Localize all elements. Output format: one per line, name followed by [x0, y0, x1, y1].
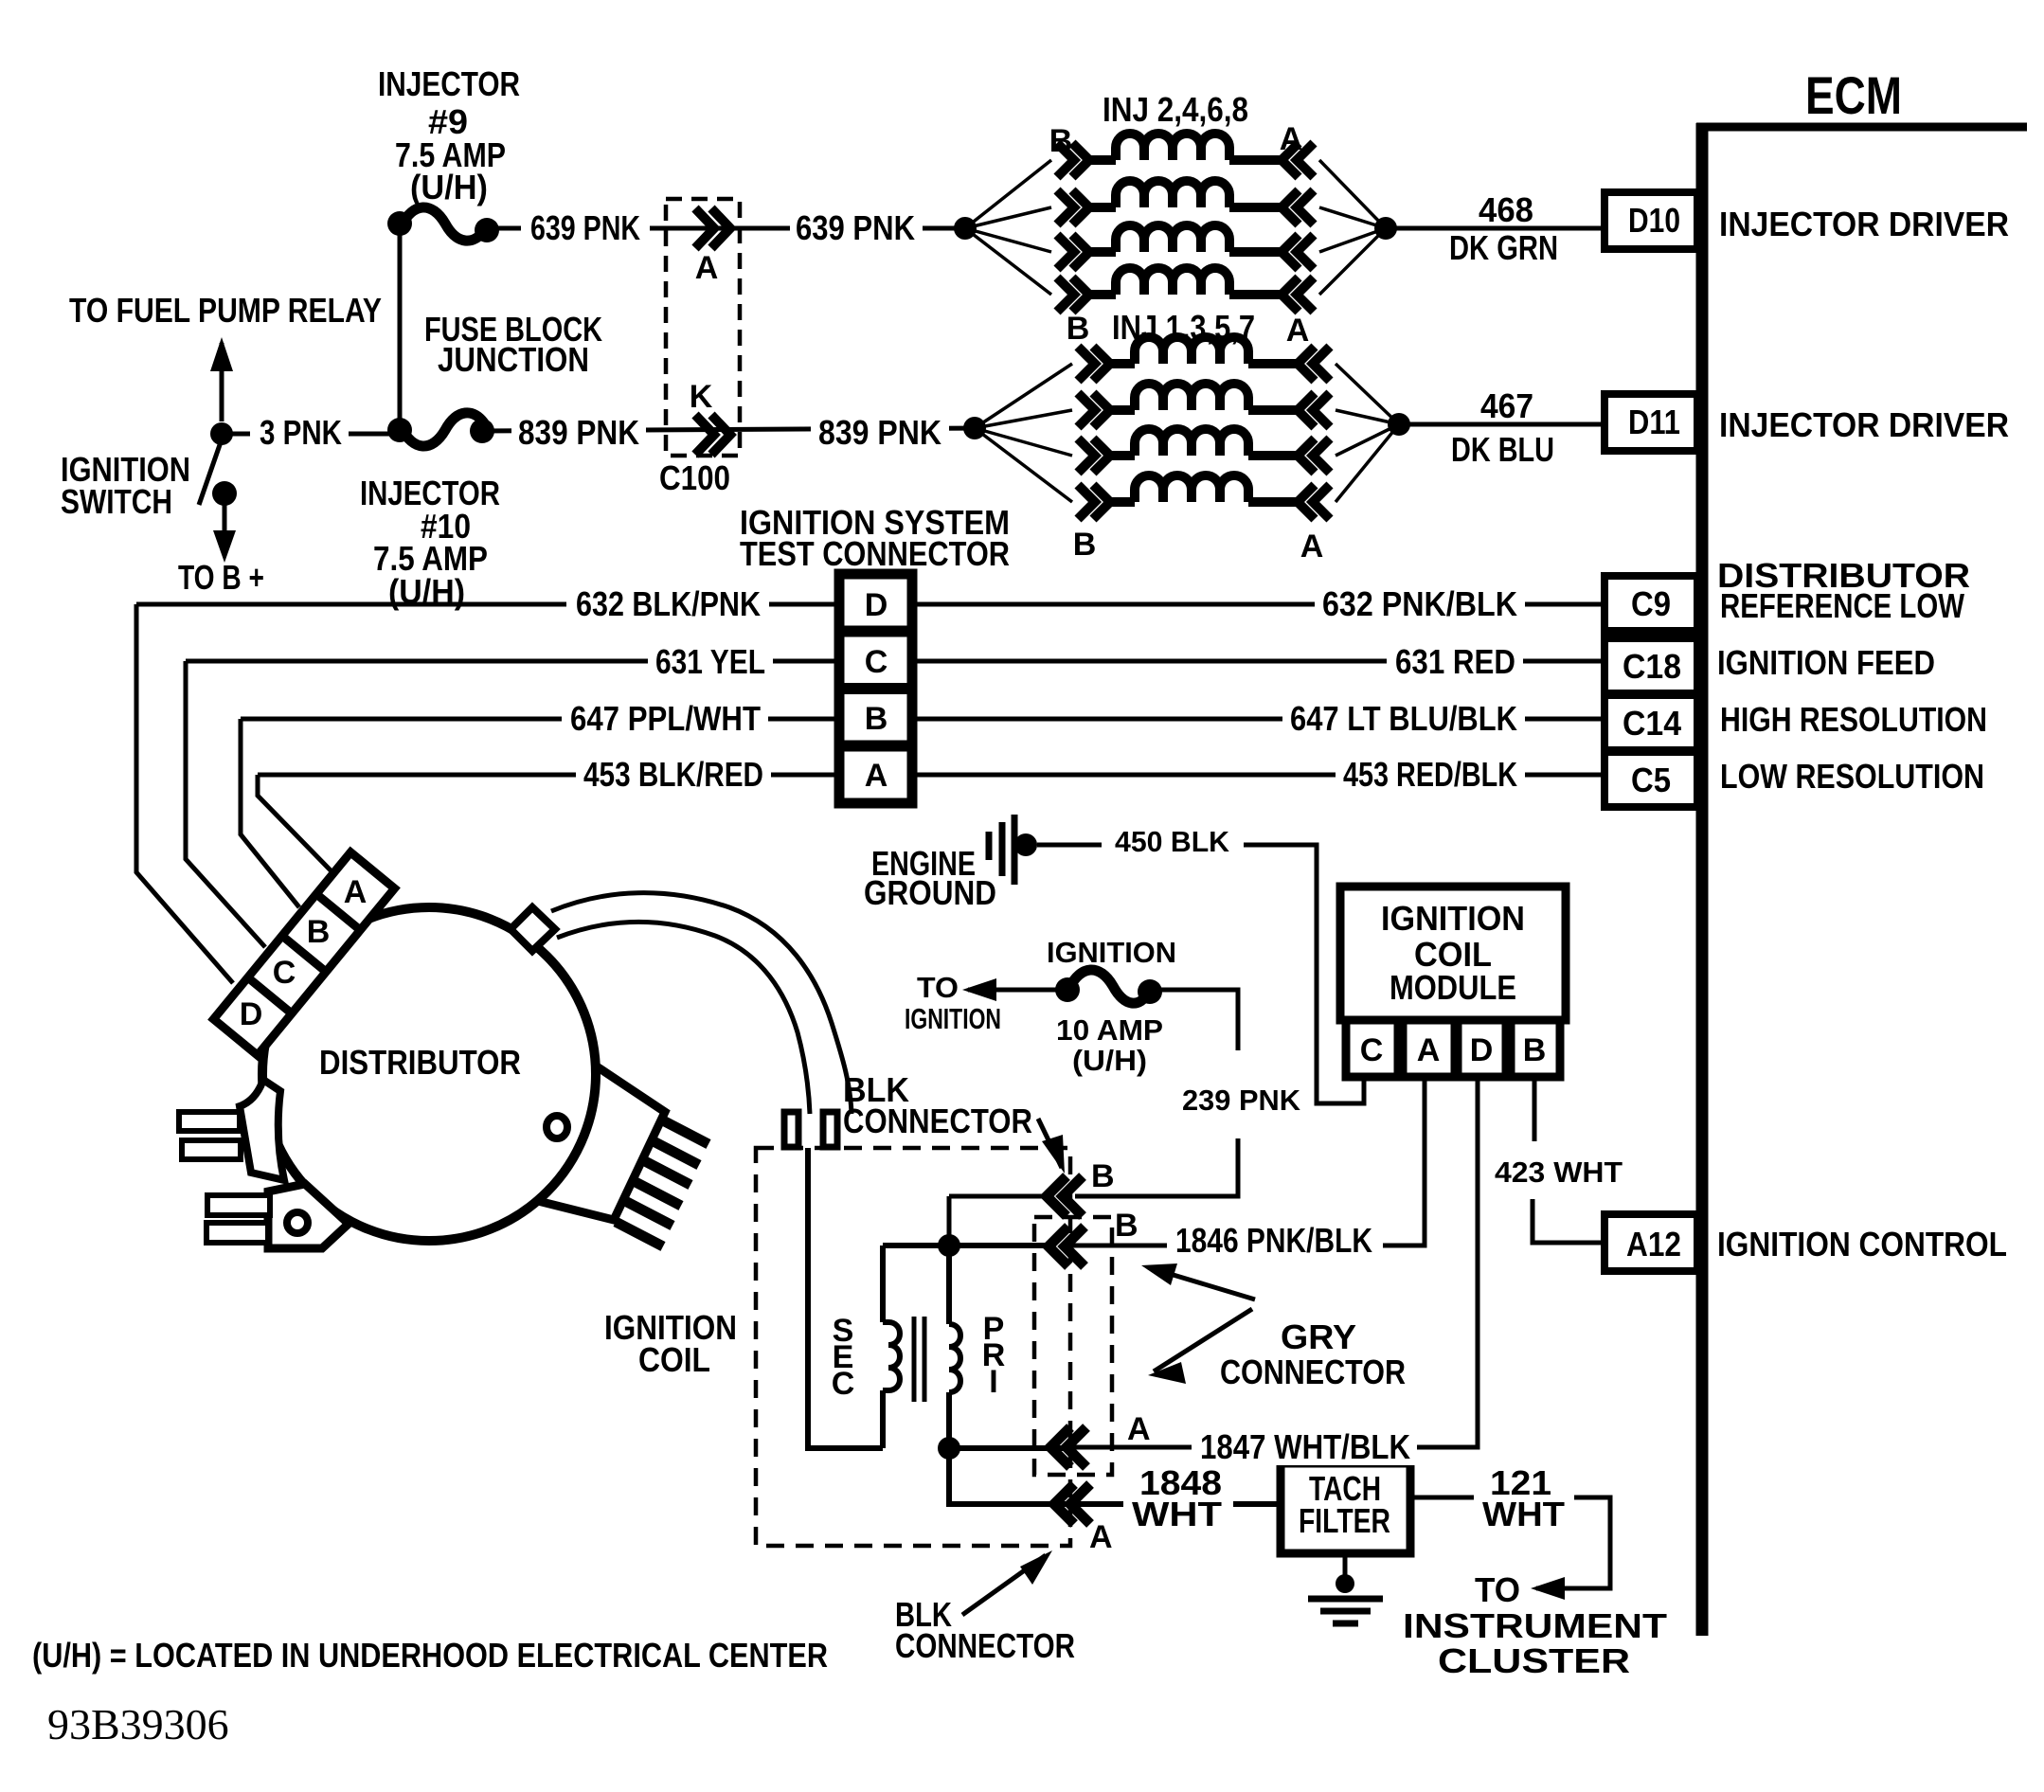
svg-text:10 AMP: 10 AMP	[1056, 1013, 1163, 1047]
svg-text:93B39306: 93B39306	[47, 1700, 229, 1748]
svg-text:TO FUEL PUMP RELAY: TO FUEL PUMP RELAY	[69, 291, 382, 330]
svg-text:TO B +: TO B +	[178, 558, 264, 597]
svg-text:C18: C18	[1623, 647, 1681, 686]
svg-text:I: I	[989, 1364, 997, 1400]
svg-text:DK GRN: DK GRN	[1449, 228, 1558, 267]
svg-text:C9: C9	[1631, 584, 1671, 623]
svg-text:CONNECTOR: CONNECTOR	[1220, 1353, 1406, 1391]
svg-text:B: B	[307, 914, 331, 950]
svg-text:632 PNK/BLK: 632 PNK/BLK	[1322, 584, 1517, 623]
svg-text:A: A	[1286, 313, 1310, 349]
svg-text:A: A	[865, 758, 888, 794]
svg-text:C14: C14	[1623, 704, 1681, 743]
svg-text:TO: TO	[1475, 1570, 1520, 1609]
svg-text:C: C	[1360, 1032, 1384, 1068]
svg-text:632 BLK/PNK: 632 BLK/PNK	[576, 584, 761, 623]
svg-text:467: 467	[1480, 386, 1533, 425]
svg-text:A: A	[1417, 1032, 1441, 1068]
svg-text:647 PPL/WHT: 647 PPL/WHT	[570, 699, 761, 738]
svg-text:SWITCH: SWITCH	[61, 482, 172, 521]
svg-text:C: C	[865, 644, 888, 680]
svg-text:REFERENCE LOW: REFERENCE LOW	[1720, 586, 1964, 625]
svg-text:647 LT BLU/BLK: 647 LT BLU/BLK	[1290, 699, 1517, 738]
svg-text:GRY: GRY	[1281, 1317, 1356, 1356]
svg-text:639 PNK: 639 PNK	[796, 208, 915, 247]
svg-text:639 PNK: 639 PNK	[530, 208, 640, 247]
svg-text:D11: D11	[1628, 403, 1680, 441]
svg-text:FILTER: FILTER	[1299, 1501, 1390, 1540]
svg-text:453 BLK/RED: 453 BLK/RED	[583, 755, 763, 794]
svg-text:B: B	[1067, 311, 1090, 347]
svg-text:TEST CONNECTOR: TEST CONNECTOR	[740, 534, 1010, 573]
svg-text:(U/H) = LOCATED IN UNDERHOOD E: (U/H) = LOCATED IN UNDERHOOD ELECTRICAL …	[32, 1636, 828, 1675]
svg-text:IGNITION FEED: IGNITION FEED	[1717, 643, 1935, 682]
svg-text:HIGH RESOLUTION: HIGH RESOLUTION	[1720, 700, 1987, 739]
svg-text:631 RED: 631 RED	[1395, 642, 1515, 681]
svg-text:CLUSTER: CLUSTER	[1438, 1641, 1630, 1680]
svg-text:423 WHT: 423 WHT	[1495, 1156, 1623, 1189]
svg-text:CONNECTOR: CONNECTOR	[843, 1102, 1032, 1140]
svg-text:IGNITION CONTROL: IGNITION CONTROL	[1717, 1225, 2007, 1263]
svg-text:INSTRUMENT: INSTRUMENT	[1403, 1606, 1667, 1645]
svg-text:GROUND: GROUND	[864, 873, 996, 912]
svg-text:A: A	[1300, 529, 1324, 564]
svg-text:D: D	[1470, 1032, 1494, 1068]
svg-text:B: B	[865, 701, 888, 737]
svg-text:DK BLU: DK BLU	[1451, 430, 1554, 469]
svg-text:IGNITION: IGNITION	[1381, 899, 1525, 938]
svg-text:D: D	[240, 996, 263, 1032]
svg-text:COIL: COIL	[638, 1340, 710, 1379]
svg-text:453 RED/BLK: 453 RED/BLK	[1343, 755, 1517, 794]
svg-text:INJECTOR DRIVER: INJECTOR DRIVER	[1719, 405, 2009, 444]
svg-text:839 PNK: 839 PNK	[518, 413, 639, 452]
svg-text:(U/H): (U/H)	[388, 572, 465, 611]
svg-text:1846 PNK/BLK: 1846 PNK/BLK	[1175, 1221, 1372, 1260]
svg-text:1847 WHT/BLK: 1847 WHT/BLK	[1200, 1427, 1410, 1466]
svg-text:3 PNK: 3 PNK	[260, 413, 342, 452]
svg-text:631 YEL: 631 YEL	[655, 642, 765, 681]
svg-text:A: A	[1280, 121, 1303, 157]
svg-text:ECM: ECM	[1805, 65, 1902, 125]
svg-text:DISTRIBUTOR: DISTRIBUTOR	[319, 1043, 521, 1082]
svg-text:C: C	[832, 1366, 855, 1402]
svg-text:WHT: WHT	[1482, 1495, 1565, 1533]
svg-text:A12: A12	[1626, 1225, 1681, 1263]
svg-text:468: 468	[1479, 190, 1533, 229]
svg-text:C: C	[273, 955, 296, 991]
svg-text:WHT: WHT	[1132, 1495, 1222, 1533]
svg-text:INJECTOR DRIVER: INJECTOR DRIVER	[1719, 205, 2009, 243]
svg-text:MODULE: MODULE	[1390, 968, 1516, 1007]
svg-text:IGNITION: IGNITION	[905, 1002, 1001, 1035]
svg-text:A: A	[1127, 1411, 1151, 1447]
svg-text:INJ 1,3,5,7: INJ 1,3,5,7	[1112, 308, 1255, 347]
svg-text:(U/H): (U/H)	[410, 168, 488, 206]
svg-text:K: K	[690, 379, 713, 415]
svg-text:LOW RESOLUTION: LOW RESOLUTION	[1720, 757, 1984, 796]
svg-text:B: B	[1073, 527, 1097, 563]
svg-text:C5: C5	[1631, 761, 1671, 799]
svg-text:JUNCTION: JUNCTION	[438, 340, 589, 379]
svg-text:239 PNK: 239 PNK	[1182, 1084, 1301, 1117]
svg-text:B: B	[1091, 1158, 1115, 1194]
svg-text:(U/H): (U/H)	[1072, 1044, 1147, 1077]
svg-text:450 BLK: 450 BLK	[1115, 825, 1230, 858]
svg-text:C100: C100	[659, 458, 730, 497]
svg-text:B: B	[1049, 123, 1073, 159]
svg-text:B: B	[1115, 1208, 1139, 1244]
svg-text:B: B	[1523, 1032, 1547, 1068]
svg-text:INJ 2,4,6,8: INJ 2,4,6,8	[1103, 90, 1248, 129]
svg-text:IGNITION: IGNITION	[1047, 936, 1176, 969]
svg-text:INJECTOR: INJECTOR	[378, 64, 520, 103]
svg-text:TO: TO	[917, 971, 959, 1004]
svg-text:D: D	[865, 587, 888, 623]
svg-text:D10: D10	[1628, 201, 1680, 240]
svg-text:A: A	[1089, 1519, 1113, 1555]
svg-text:A: A	[344, 874, 368, 910]
svg-text:CONNECTOR: CONNECTOR	[895, 1626, 1075, 1665]
svg-text:A: A	[695, 250, 719, 286]
svg-text:839 PNK: 839 PNK	[818, 413, 941, 452]
